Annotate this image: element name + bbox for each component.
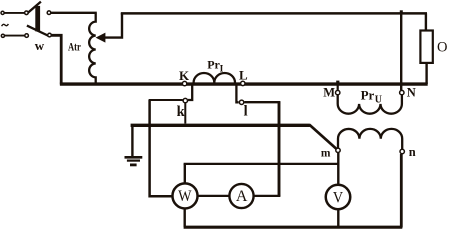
svg-text:Atr: Atr (68, 41, 81, 53)
svg-text:Pr: Pr (207, 58, 220, 72)
svg-text:k: k (177, 104, 186, 120)
svg-text:M: M (323, 85, 335, 99)
svg-text:l: l (244, 104, 248, 120)
svg-text:O: O (437, 40, 447, 56)
svg-text:V: V (333, 190, 344, 207)
svg-text:A: A (236, 188, 248, 205)
svg-text:K: K (179, 68, 190, 83)
svg-text:L: L (239, 68, 248, 83)
svg-text:w: w (35, 38, 45, 53)
svg-text:n: n (409, 145, 416, 159)
svg-text:W: W (178, 188, 192, 205)
svg-text:N: N (407, 85, 416, 99)
svg-text:m: m (321, 148, 331, 160)
svg-text:U: U (375, 95, 382, 106)
svg-text:I: I (220, 64, 224, 74)
svg-text:Pr: Pr (361, 87, 375, 102)
